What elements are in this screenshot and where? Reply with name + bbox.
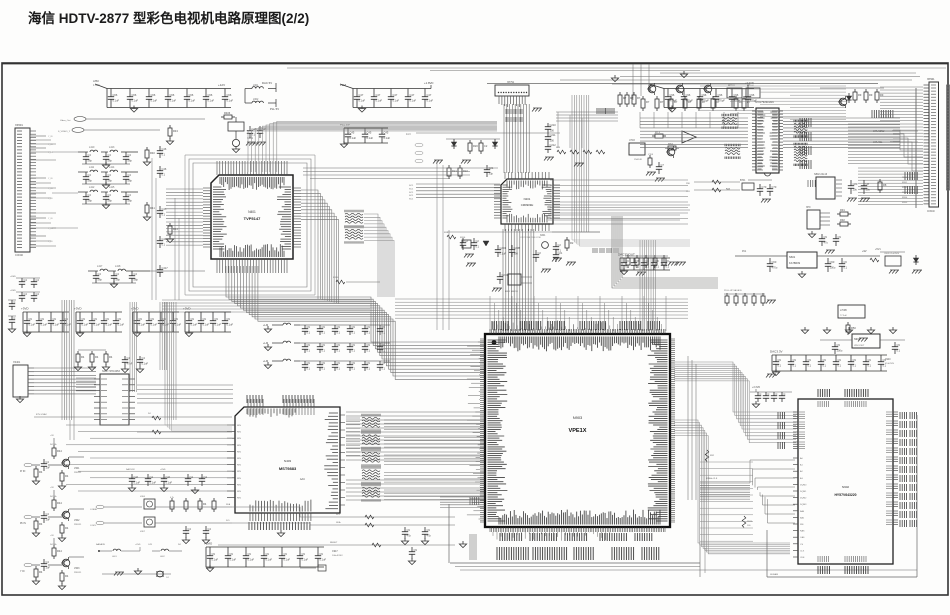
svg-text:C4: C4: [204, 475, 208, 479]
svg-text:C4: C4: [127, 356, 131, 360]
svg-text:0.1uF: 0.1uF: [170, 99, 177, 103]
svg-text:10u: 10u: [866, 188, 871, 192]
svg-text:0.1uF: 0.1uF: [230, 558, 237, 562]
svg-text:C4: C4: [188, 527, 192, 531]
svg-text:C9: C9: [367, 325, 371, 329]
wire bus VPE1X top-right up: [640, 240, 655, 331]
svg-text:Y_IN: Y_IN: [48, 178, 53, 180]
svg-text:R22: R22: [463, 169, 468, 173]
svg-text:Y_IN: Y_IN: [48, 198, 53, 200]
svg-text:C: C: [776, 392, 778, 396]
resistor R920 vertical on clock line: [705, 450, 715, 462]
svg-text:C9: C9: [302, 552, 306, 556]
svg-text:Pb IN: Pb IN: [20, 523, 26, 525]
svg-text:+3VD: +3VD: [183, 307, 191, 311]
svg-text:C4: C4: [108, 153, 112, 157]
svg-text:R4: R4: [95, 355, 99, 359]
svg-text:+LM: +LM: [263, 323, 268, 327]
svg-text:XP201: XP201: [15, 123, 23, 127]
svg-text:C9: C9: [853, 358, 857, 362]
svg-text:N201: N201: [524, 197, 531, 201]
svg-text:RIN: RIN: [237, 484, 241, 486]
svg-text:+LND: +LND: [160, 469, 166, 471]
LC filter row 3 (L41x C44x): [78, 186, 138, 209]
svg-text:10u: 10u: [853, 188, 858, 192]
svg-text:C9: C9: [352, 361, 356, 365]
svg-text:R7: R7: [660, 100, 664, 104]
svg-text:R4: R4: [81, 355, 85, 359]
svg-text:C9: C9: [414, 548, 418, 552]
capacitor bank group 4 (+3.3VD mid-left): [183, 307, 234, 337]
svg-text:R950: R950: [902, 177, 908, 179]
svg-text:KA78R09: KA78R09: [789, 261, 801, 265]
svg-text:0.1: 0.1: [656, 265, 660, 269]
crystal X401 13.5MHz above N401: [228, 117, 258, 153]
svg-text:R9: R9: [858, 93, 862, 97]
wire bus packs to VPE1X left pins: [384, 420, 484, 500]
svg-text:R44: R44: [173, 227, 178, 231]
svg-text:C9: C9: [352, 343, 356, 347]
svg-text:+3VD: +3VD: [74, 307, 82, 311]
svg-text:C9: C9: [191, 317, 195, 321]
resistor pack RP903 (wavy): [362, 449, 380, 467]
svg-text:Video_Out: Video_Out: [60, 119, 71, 122]
SDA SCL long links to bottom center: [218, 507, 340, 545]
svg-text:C9: C9: [215, 317, 219, 321]
svg-text:C9: C9: [322, 343, 326, 347]
vertical link below VPE1X to bottom rail: [700, 462, 753, 577]
svg-text:0.1uF: 0.1uF: [132, 99, 139, 103]
svg-text:R4: R4: [39, 522, 43, 526]
svg-text:C9: C9: [212, 552, 216, 556]
inductor L601 L602 to DAC5V PLL5V: [245, 81, 279, 111]
capacitor bank C470-C474 (+1.8VD): [340, 81, 434, 112]
svg-text:R2: R2: [570, 241, 574, 245]
svg-text:O SDA: O SDA: [90, 508, 97, 511]
svg-text:+LM: +LM: [263, 359, 268, 363]
svg-text:C4: C4: [24, 292, 28, 296]
svg-text:0.1: 0.1: [476, 245, 480, 249]
svg-text:OPL 63KD: OPL 63KD: [873, 130, 885, 133]
op IC N701 HD404304 microcontroller (DIP): [752, 101, 783, 176]
svg-text:C47: C47: [359, 93, 364, 97]
svg-text:C9: C9: [203, 317, 207, 321]
svg-text:R955: R955: [902, 202, 908, 204]
svg-text:56p: 56p: [98, 278, 103, 282]
svg-text:C96: C96: [670, 93, 675, 97]
svg-text:R72: R72: [668, 142, 673, 146]
mosfet level shifters V406 V407 (SDA SCL): [90, 496, 232, 544]
connector XS401 (left, VGA): [13, 361, 34, 403]
svg-text:Y_IN: Y_IN: [48, 218, 53, 220]
capacitor bank group 3 (+3.3VD mid-left): [131, 307, 182, 337]
svg-text:0.1uF: 0.1uF: [359, 99, 366, 103]
svg-text:RAS: RAS: [800, 530, 805, 533]
svg-text:AAC: AAC: [300, 477, 305, 481]
svg-text:X201: X201: [540, 235, 546, 237]
svg-text:C66: C66: [132, 93, 137, 97]
svg-text:C47: C47: [376, 93, 381, 97]
svg-text:C7: C7: [661, 163, 665, 167]
pull-up resistor row right of VPE1X: [724, 289, 868, 342]
svg-text:C9: C9: [868, 358, 872, 362]
svg-text:C2: C2: [465, 239, 469, 243]
svg-text:C4: C4: [134, 272, 138, 276]
wire bus below VPE1X to bottom rail: [440, 497, 917, 570]
svg-text:C41: C41: [166, 475, 171, 479]
svg-text:L860: L860: [93, 79, 99, 83]
svg-text:N802 24L16: N802 24L16: [814, 173, 828, 176]
svg-text:海信 HDTV-2877 型彩色电视机电路原理图(2/2): 海信 HDTV-2877 型彩色电视机电路原理图(2/2): [28, 10, 309, 26]
svg-text:0.1: 0.1: [337, 331, 341, 335]
svg-text:Y_IN: Y_IN: [48, 241, 53, 243]
svg-text:0.1: 0.1: [838, 364, 842, 368]
svg-text:0.1: 0.1: [307, 367, 311, 371]
vertical wires x437: [437, 160, 449, 330]
long net wire 5V top: [287, 68, 946, 84]
op IC N201 CM0909H (QFP): [494, 172, 560, 231]
svg-text:R20: R20: [473, 144, 478, 148]
svg-text:56p: 56p: [134, 278, 139, 282]
svg-text:0.1uF: 0.1uF: [410, 99, 417, 103]
svg-text:C4: C4: [88, 193, 92, 197]
svg-text:C47: C47: [427, 93, 432, 97]
svg-text:R50: R50: [851, 326, 856, 330]
svg-text:RIN: RIN: [237, 438, 241, 440]
svg-text:C: C: [760, 392, 762, 396]
svg-text:0.1uF: 0.1uF: [65, 323, 72, 327]
svg-text:R7: R7: [716, 100, 720, 104]
svg-text:56p: 56p: [88, 179, 93, 183]
svg-text:C2: C2: [558, 243, 562, 247]
svg-text:C96: C96: [686, 93, 691, 97]
capacitor bank C960-C964 top-right: [648, 81, 757, 112]
svg-text:Y_IN: Y_IN: [48, 144, 53, 146]
svg-text:CM0909H: CM0909H: [521, 203, 534, 207]
svg-text:HY57V643220: HY57V643220: [834, 493, 856, 497]
svg-text:0.1: 0.1: [666, 265, 670, 269]
resistor R408 column and caps near filters: [143, 125, 178, 243]
svg-text:V406: V406: [140, 496, 146, 498]
op IC N403 MST9883 (QFP): [227, 395, 345, 537]
wire bus vertical XP791 to N201 to VPE1X: [503, 104, 534, 331]
svg-text:C9: C9: [139, 317, 143, 321]
svg-text:C60: C60: [772, 260, 777, 264]
svg-text:C70: C70: [762, 185, 767, 189]
svg-text:0.1: 0.1: [853, 364, 857, 368]
capacitor bank above N902 (DAC3.3V): [766, 350, 895, 378]
svg-text:+5V1: +5V1: [875, 248, 881, 251]
svg-text:47u: 47u: [824, 241, 829, 245]
svg-text:62MHz CLK: 62MHz CLK: [706, 478, 718, 480]
svg-text:SDA: SDA: [336, 521, 341, 524]
svg-text:Y_IN: Y_IN: [48, 136, 53, 138]
LC filter row 2 (L41x C44x): [78, 166, 138, 189]
svg-text:R4: R4: [65, 574, 69, 578]
svg-text:R41: R41: [150, 206, 155, 210]
svg-text:C66: C66: [208, 93, 213, 97]
svg-text:C211: C211: [550, 133, 557, 137]
svg-text:C4: C4: [46, 460, 50, 464]
regulator N904 AZ1117 above N902: [820, 334, 905, 354]
svg-text:TVP5147: TVP5147: [244, 216, 261, 221]
svg-text:C9: C9: [778, 358, 782, 362]
svg-text:+9V: +9V: [862, 250, 867, 253]
connector XP902 small with resistors: [806, 207, 851, 254]
svg-text:0.1uF: 0.1uF: [227, 323, 234, 327]
svg-text:C6: C6: [646, 259, 650, 263]
svg-text:C9: C9: [227, 317, 231, 321]
svg-text:C96: C96: [750, 93, 755, 97]
svg-text:0.1uF: 0.1uF: [427, 99, 434, 103]
wire bus VPE1X right down to N902 bottom: [674, 420, 790, 554]
svg-text:C9: C9: [382, 343, 386, 347]
video input long wires: [58, 117, 205, 133]
label row and resistor network right of B201: [520, 237, 678, 276]
svg-text:1uF: 1uF: [46, 566, 51, 570]
wires XS401 to N402/MST: [34, 368, 232, 417]
svg-text:C47: C47: [393, 93, 398, 97]
svg-text:C: C: [14, 316, 16, 320]
wires N401 right side staircase: [301, 190, 339, 304]
svg-text:R4: R4: [109, 355, 113, 359]
svg-text:0.1: 0.1: [367, 331, 371, 335]
svg-text:4.7k: 4.7k: [170, 497, 174, 499]
svg-text:56p: 56p: [88, 159, 93, 163]
svg-text:C9: C9: [266, 552, 270, 556]
svg-text:0.1uF: 0.1uF: [82, 323, 89, 327]
resistor pack RP904 (wavy): [362, 466, 380, 484]
svg-text:0.1: 0.1: [322, 331, 326, 335]
svg-text:0.1uF: 0.1uF: [118, 323, 125, 327]
svg-text:DAC33/OUT: DAC33/OUT: [618, 253, 635, 257]
svg-text:C4: C4: [128, 173, 132, 177]
svg-text:C2: C2: [538, 251, 542, 255]
svg-text:C4: C4: [24, 278, 28, 282]
svg-text:R7: R7: [747, 100, 751, 104]
svg-text:C4: C4: [46, 512, 50, 516]
svg-text:V705: V705: [648, 154, 654, 156]
svg-text:C9: C9: [823, 358, 827, 362]
svg-text:0.1: 0.1: [337, 349, 341, 353]
svg-text:0.1: 0.1: [646, 265, 650, 269]
svg-text:0.1: 0.1: [162, 243, 166, 247]
vertical bundle x165 to MST: [165, 302, 232, 431]
svg-text:0.1uF: 0.1uF: [376, 99, 383, 103]
svg-text:C9: C9: [427, 528, 431, 532]
small cap group +3.3VD left of N902: [750, 386, 792, 408]
wire bus N401 bottom staircase to VPE1X: [226, 266, 484, 379]
svg-text:N904: N904: [854, 338, 861, 341]
caps pairs far bottom-left: [10, 276, 40, 302]
svg-text:RIN: RIN: [237, 491, 241, 493]
svg-text:DQM3: DQM3: [800, 504, 807, 506]
svg-text:C4: C4: [128, 193, 132, 197]
svg-text:+LM: +LM: [263, 341, 268, 345]
svg-text:RIN: RIN: [237, 451, 241, 453]
svg-text:C4: C4: [88, 153, 92, 157]
svg-text:C6: C6: [626, 259, 630, 263]
svg-text:0.1: 0.1: [382, 331, 386, 335]
svg-text:C9: C9: [118, 317, 122, 321]
svg-text:+LMO: +LMO: [204, 542, 213, 546]
svg-text:C9: C9: [41, 317, 45, 321]
resistor pack RP401 (wavy) near N401: [345, 210, 363, 244]
svg-text:C: C: [14, 300, 16, 304]
svg-text:2N5551: 2N5551: [74, 472, 82, 474]
svg-text:0.1uF: 0.1uF: [151, 99, 158, 103]
svg-text:47p: 47p: [407, 534, 412, 538]
op IC N902 HY57V643220 (SDRAM): [778, 389, 917, 574]
svg-text:0.1uF: 0.1uF: [53, 323, 60, 327]
svg-text:2N5551: 2N5551: [74, 524, 82, 526]
svg-text:C9: C9: [382, 325, 386, 329]
svg-text:0.1uF: 0.1uF: [139, 323, 146, 327]
svg-text:C4: C4: [46, 560, 50, 564]
svg-text:C60: C60: [830, 260, 835, 264]
svg-text:C2: C2: [476, 239, 480, 243]
svg-text:L414: L414: [109, 166, 115, 169]
svg-text:RIN: RIN: [237, 478, 241, 480]
svg-text:+9V: +9V: [50, 435, 54, 437]
svg-text:470u: 470u: [772, 266, 778, 270]
horizontal mini-bundle right of XP791: [556, 108, 618, 148]
resistor pack RP902 (wavy): [362, 431, 380, 449]
wires N402 to MST9883: [137, 385, 233, 434]
coupling caps C460 C462 C464 (into N401): [157, 146, 167, 248]
svg-text:0.1uF: 0.1uF: [29, 323, 36, 327]
svg-text:0.1uF: 0.1uF: [302, 558, 309, 562]
net label ovals column x415: [415, 143, 423, 163]
svg-text:C9: C9: [407, 528, 411, 532]
svg-text:C9: C9: [808, 358, 812, 362]
connector XP791 (top center): [495, 81, 542, 112]
svg-text:56p: 56p: [116, 278, 121, 282]
svg-text:Y IN: Y IN: [20, 571, 25, 573]
svg-text:0.1: 0.1: [367, 349, 371, 353]
svg-text:0.1uF: 0.1uF: [113, 99, 120, 103]
svg-text:C9: C9: [175, 317, 179, 321]
svg-text:0.1uF: 0.1uF: [215, 323, 222, 327]
svg-text:0.1: 0.1: [322, 349, 326, 353]
svg-text:C4: C4: [116, 272, 120, 276]
svg-text:C9: C9: [824, 235, 828, 239]
capacitor bank C860-C866 (+12V rail top-left): [93, 79, 234, 112]
svg-text:R44: R44: [57, 449, 62, 453]
LC filter row 1 (L41x C44x): [78, 146, 138, 169]
svg-text:C6: C6: [666, 259, 670, 263]
svg-text:0.1uF: 0.1uF: [94, 323, 101, 327]
svg-text:Y_IN: Y_IN: [48, 152, 53, 154]
svg-text:C604 0.1uF/50V: C604 0.1uF/50V: [884, 253, 900, 255]
bus label groups below VPE1X: [497, 533, 659, 560]
svg-text:RIN: RIN: [237, 425, 241, 427]
svg-text:C9: C9: [65, 317, 69, 321]
svg-text:Pr IN: Pr IN: [20, 470, 26, 473]
svg-text:R92: R92: [840, 218, 845, 222]
resistor row R290-R293 with ground: [556, 147, 605, 167]
svg-text:RIN: RIN: [237, 465, 241, 467]
svg-text:0.1uF: 0.1uF: [500, 252, 507, 256]
svg-text:C9: C9: [897, 343, 901, 347]
resistor pack RP905 (wavy): [362, 484, 380, 502]
svg-text:OPL 60L: OPL 60L: [873, 141, 883, 144]
svg-text:N903: N903: [573, 415, 583, 420]
svg-text:R260: R260: [333, 277, 339, 279]
svg-text:R9: R9: [880, 93, 884, 97]
svg-text:C4: C4: [128, 153, 132, 157]
svg-text:C9: C9: [307, 325, 311, 329]
svg-text:C9: C9: [29, 317, 33, 321]
svg-text:2N5551: 2N5551: [74, 572, 82, 574]
wires left of N902 address bus: [688, 356, 795, 523]
svg-text:0.1: 0.1: [868, 364, 872, 368]
resistor packs right of N701 (wavy): [794, 120, 807, 166]
svg-text:R9: R9: [869, 93, 873, 97]
svg-text:0.1: 0.1: [352, 367, 356, 371]
svg-text:R4: R4: [203, 502, 207, 506]
wires from XP201 to filters: [31, 136, 78, 246]
svg-text:N601: N601: [789, 255, 796, 259]
caps groups +LND right of stages: [126, 468, 207, 494]
svg-text:R954: R954: [902, 197, 908, 199]
cap bank DAC33 small (top-right): [618, 253, 686, 275]
svg-text:0.1uF: 0.1uF: [191, 323, 198, 327]
svg-text:L413: L413: [109, 146, 115, 149]
LC decoupling row 2 mid: [263, 341, 390, 353]
vertical wires from frame top near center: [633, 64, 649, 100]
svg-text:100: 100: [550, 139, 555, 143]
svg-text:C8: C8: [866, 182, 870, 186]
svg-text:DAC 5V: DAC 5V: [262, 81, 272, 85]
svg-text:C4: C4: [88, 173, 92, 177]
caps C210-C212 column above N201: [544, 123, 556, 161]
svg-text:N402 74HC4053: N402 74HC4053: [102, 370, 120, 373]
svg-text:+9V: +9V: [50, 487, 54, 489]
svg-text:C96: C96: [702, 93, 707, 97]
svg-text:L418: L418: [115, 265, 121, 268]
keyboard transistors V701-V703 with resistors: [611, 71, 760, 128]
wire staircase pack down to bus: [364, 214, 394, 297]
svg-text:C9: C9: [337, 325, 341, 329]
svg-text:R4: R4: [39, 570, 43, 574]
svg-text:0.1: 0.1: [382, 367, 386, 371]
svg-text:C9: C9: [284, 552, 288, 556]
svg-text:WE: WE: [800, 524, 804, 526]
svg-text:C4: C4: [36, 278, 40, 282]
svg-text:R44: R44: [57, 549, 62, 553]
svg-text:C9: C9: [367, 343, 371, 347]
svg-text:R7: R7: [674, 100, 678, 104]
svg-text:0.1uF: 0.1uF: [203, 323, 210, 327]
svg-text:+3.3VD: +3.3VD: [752, 386, 760, 389]
svg-text:0.1: 0.1: [808, 364, 812, 368]
svg-text:+1.8VD: +1.8VD: [424, 81, 433, 85]
crystal B201 SMF13 below: [333, 272, 532, 293]
svg-text:DAC3.3V: DAC3.3V: [126, 468, 135, 471]
caps cluster below N201: [460, 205, 690, 262]
svg-text:56p: 56p: [128, 179, 133, 183]
svg-text:R43: R43: [173, 129, 178, 133]
svg-text:0.1: 0.1: [352, 349, 356, 353]
ir receiver and comparator N702: [629, 130, 696, 182]
photocoupler and diode VD601 right edge: [870, 248, 922, 274]
op IC N401 TVP5147 video decoder (QFP): [203, 161, 301, 273]
svg-text:0.1uF: 0.1uF: [189, 99, 196, 103]
svg-text:100uF/16V: 100uF/16V: [332, 555, 343, 557]
svg-text:0.1uF: 0.1uF: [163, 323, 170, 327]
svg-text:14.3: 14.3: [406, 134, 411, 136]
